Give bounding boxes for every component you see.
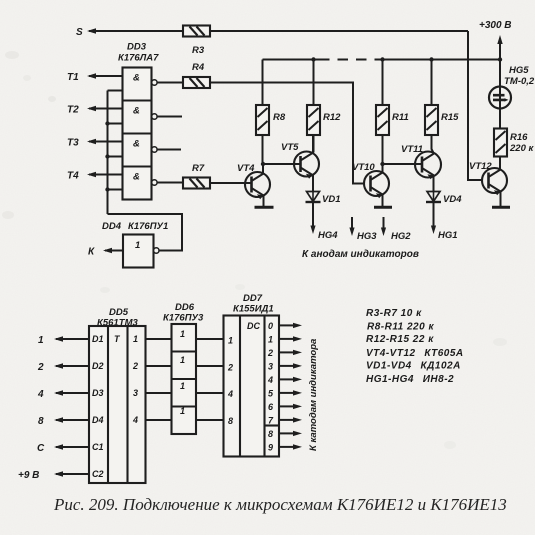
svg-text:К155ИД1: К155ИД1	[233, 304, 274, 315]
buffer DD4 box	[123, 235, 154, 268]
wire R4 to VT10 base	[210, 83, 364, 184]
svg-text:Т2: Т2	[67, 105, 79, 116]
wire DD6 to DD7 row1	[196, 338, 224, 340]
wire R7 to VT4 base	[210, 182, 252, 184]
wire S to R3	[89, 30, 183, 32]
svg-text:3: 3	[268, 361, 273, 371]
svg-text:VD1-VD4 КД102А: VD1-VD4 КД102А	[366, 361, 461, 372]
wire DD5 to DD6 row4	[146, 419, 172, 421]
svg-text:HG5: HG5	[509, 65, 529, 76]
DD7 labels	[233, 293, 274, 315]
DD3 labels	[118, 42, 159, 64]
power bus +300V horizontal	[263, 59, 320, 61]
power +300 V terminal	[479, 20, 512, 62]
resistor R7	[183, 163, 210, 189]
svg-text:1: 1	[38, 335, 44, 346]
node HG3 output arrow	[349, 217, 377, 242]
node T2	[67, 105, 123, 116]
transistor VT12	[469, 161, 507, 207]
junction dot bus-gate4	[105, 187, 109, 191]
svg-text:2: 2	[227, 363, 233, 373]
resistor R11	[376, 57, 409, 164]
node HG4 output arrow	[310, 202, 338, 241]
inverter bubble gate3	[152, 147, 157, 152]
wire VT10 collector to VT11 base	[383, 163, 423, 165]
svg-text:D4: D4	[92, 415, 104, 425]
svg-text:2: 2	[267, 348, 273, 358]
wire gate3 output stub	[157, 149, 181, 151]
svg-text:&: &	[133, 106, 140, 117]
svg-text:С: С	[37, 443, 45, 454]
wire DD6 to DD7 row4	[196, 419, 224, 421]
resistor R8	[256, 60, 286, 165]
svg-text:Т4: Т4	[67, 171, 79, 182]
node input 1	[38, 335, 89, 346]
svg-text:К176ПУ1: К176ПУ1	[128, 221, 168, 232]
svg-text:0: 0	[268, 321, 273, 331]
svg-text:1: 1	[268, 334, 273, 344]
wire bus right section	[377, 59, 500, 61]
svg-text:4: 4	[227, 389, 233, 399]
node S	[76, 27, 96, 38]
svg-text:1: 1	[135, 240, 140, 251]
op-amp U-DD3 gate box	[123, 68, 152, 200]
svg-text:VT5: VT5	[281, 142, 299, 153]
wire stub gate3 input	[108, 156, 123, 158]
transistor VT11	[401, 144, 441, 192]
transistor VT4	[237, 163, 270, 207]
svg-text:К176ПУ3: К176ПУ3	[163, 313, 204, 324]
ground VT4	[255, 206, 274, 209]
svg-text:8: 8	[228, 416, 233, 426]
svg-text:R7: R7	[192, 163, 205, 174]
svg-text:&: &	[133, 73, 140, 84]
wire DD6 to DD7 row3	[196, 392, 224, 394]
node input 2	[37, 362, 89, 373]
transistor VT5	[281, 135, 319, 192]
svg-text:D3: D3	[92, 388, 104, 398]
svg-text:4: 4	[132, 415, 138, 425]
wire gate2 output stub	[157, 116, 182, 118]
DD4 labels	[102, 221, 168, 232]
node HG1 output arrow	[431, 202, 458, 241]
svg-text:HG1: HG1	[438, 230, 458, 241]
wire gate4 output to R7	[157, 182, 183, 184]
svg-text:DD7: DD7	[243, 293, 263, 304]
svg-text:&: &	[133, 139, 140, 150]
inverter bubble DD4	[154, 248, 159, 253]
junction dot bus-gate3	[105, 154, 109, 158]
svg-text:К анодам индикаторов: К анодам индикаторов	[302, 249, 419, 260]
svg-text:+9 В: +9 В	[18, 470, 39, 481]
svg-text:HG4: HG4	[318, 230, 338, 241]
wire R3 to right corner	[210, 30, 468, 32]
junction dot VT4 collector / R8	[261, 162, 265, 166]
svg-text:R12: R12	[323, 112, 341, 123]
svg-text:8: 8	[268, 429, 273, 439]
svg-text:DD6: DD6	[175, 302, 195, 313]
svg-text:3: 3	[133, 388, 138, 398]
svg-text:1: 1	[180, 406, 185, 416]
svg-text:4: 4	[37, 389, 44, 400]
svg-text:D1: D1	[92, 334, 104, 344]
svg-text:2: 2	[37, 362, 44, 373]
svg-text:9: 9	[268, 442, 273, 452]
svg-text:HG3: HG3	[357, 231, 377, 242]
node T1	[67, 72, 123, 83]
svg-text:4: 4	[267, 375, 273, 385]
svg-text:1: 1	[180, 381, 185, 391]
wire stub gate4 input	[108, 189, 123, 191]
svg-text:R8-R11 220 к: R8-R11 220 к	[367, 322, 434, 333]
svg-text:1: 1	[180, 329, 185, 339]
svg-text:HG1-HG4 ИН8-2: HG1-HG4 ИН8-2	[366, 374, 454, 385]
svg-text:R3-R7 10 к: R3-R7 10 к	[366, 308, 422, 319]
resistor R16	[494, 129, 534, 170]
svg-text:220 к: 220 к	[509, 143, 534, 154]
node input +9V	[18, 470, 89, 481]
svg-text:ТМ-0,2: ТМ-0,2	[504, 76, 535, 87]
register DD5 box	[89, 326, 146, 483]
svg-text:D2: D2	[92, 361, 104, 371]
svg-text:DC: DC	[247, 321, 260, 331]
diode VD4	[426, 192, 462, 206]
resistor R15	[425, 57, 459, 154]
DD7 pin labels	[227, 321, 260, 426]
svg-text:VD4: VD4	[443, 194, 462, 205]
svg-text:C2: C2	[92, 469, 104, 479]
wire stub gate2 input	[108, 123, 123, 125]
svg-text:DD5: DD5	[109, 307, 129, 318]
buffer DD6 box	[172, 324, 197, 434]
svg-text:VT4-VT12 КТ605А: VT4-VT12 КТ605А	[366, 348, 464, 359]
svg-text:DD4: DD4	[102, 221, 122, 232]
transistor VT10	[352, 162, 389, 207]
inverter bubble gate4	[152, 180, 157, 185]
resistor R4	[183, 62, 210, 88]
decoder DD7 box	[224, 316, 280, 457]
svg-text:+300 В: +300 В	[479, 20, 512, 31]
node input 8	[38, 416, 89, 427]
node K	[88, 247, 123, 258]
svg-text:R3: R3	[192, 45, 205, 56]
wire bus to DD4 output	[108, 214, 183, 251]
junction dot VT10 collector / R11	[380, 162, 384, 166]
wire gate1 output to R4	[157, 82, 183, 84]
svg-text:R16: R16	[510, 132, 528, 143]
inverter bubble gate1	[152, 80, 157, 85]
svg-text:8: 8	[38, 416, 44, 427]
node input C	[37, 443, 89, 454]
wire bus dashed section	[319, 59, 377, 61]
wire DD6 to DD7 row2	[196, 365, 224, 367]
svg-text:Рис. 209. Подключение к микрос: Рис. 209. Подключение к микросхемам К176…	[53, 495, 507, 514]
svg-text:Т3: Т3	[67, 138, 79, 149]
DD7 output digits	[267, 321, 274, 452]
svg-text:2: 2	[132, 361, 138, 371]
svg-text:1: 1	[180, 355, 185, 365]
svg-text:DD3: DD3	[127, 42, 147, 53]
svg-text:&: &	[133, 172, 140, 183]
node T3	[67, 138, 123, 149]
svg-text:1: 1	[133, 334, 138, 344]
DD7 output arrows 0-9	[279, 323, 302, 450]
node input 4	[37, 389, 89, 400]
svg-text:R8: R8	[273, 112, 286, 123]
wire DD5 to DD6 row2	[146, 365, 172, 367]
lamp HG5	[489, 60, 535, 129]
wire DD5 to DD6 row3	[146, 392, 172, 394]
wire stub gate1 input	[108, 90, 123, 92]
resistor R12	[307, 57, 341, 152]
node T4	[67, 171, 123, 182]
DD6 labels	[163, 302, 204, 324]
DD6 cell labels	[180, 329, 185, 416]
svg-text:К: К	[88, 247, 95, 258]
junction dot bus-gate2	[105, 121, 109, 125]
resistor R3	[183, 26, 210, 57]
inverter bubble gate2	[152, 114, 157, 119]
svg-text:К176ЛА7: К176ЛА7	[118, 53, 159, 64]
svg-text:R12-R15 22 к: R12-R15 22 к	[366, 334, 434, 345]
wire DD5 to DD6 row1	[146, 338, 172, 340]
ground VT12	[492, 206, 510, 209]
DD5 pin labels	[92, 334, 138, 479]
svg-text:R4: R4	[192, 62, 205, 73]
svg-text:Т1: Т1	[67, 72, 79, 83]
svg-text:C1: C1	[92, 442, 104, 452]
svg-text:R11: R11	[392, 112, 409, 123]
svg-text:VD1: VD1	[322, 194, 340, 205]
wire input bus vertical	[107, 91, 109, 215]
ground VT10	[374, 206, 392, 209]
DD5 labels	[97, 307, 139, 329]
node HG2 output arrow	[381, 217, 411, 242]
svg-text:К катодам индикатора: К катодам индикатора	[308, 339, 319, 451]
svg-text:R15: R15	[441, 112, 459, 123]
diode VD1	[306, 192, 341, 206]
svg-text:1: 1	[228, 336, 233, 346]
wire junction to VT5 base	[263, 163, 301, 165]
svg-text:HG2: HG2	[391, 231, 411, 242]
wire vertical to VT12 base	[468, 31, 482, 180]
svg-text:S: S	[76, 27, 83, 38]
